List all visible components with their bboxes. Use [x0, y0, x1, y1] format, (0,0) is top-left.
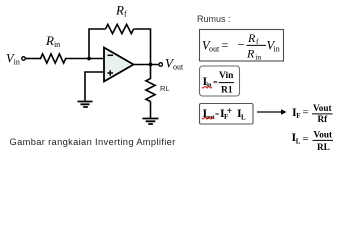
- svg-text:Rf: Rf: [318, 114, 329, 124]
- wire output node to RL: [150, 65, 152, 80]
- wire Vin to Rin: [26, 58, 42, 60]
- svg-text:Rumus :: Rumus :: [197, 14, 231, 24]
- svg-text:F: F: [296, 112, 300, 120]
- svg-text:+: +: [227, 106, 233, 117]
- svg-text:Rf: Rf: [115, 3, 127, 19]
- wire Rin to op-amp inverting input: [65, 58, 104, 60]
- op-amp U1: [104, 48, 134, 82]
- op-amp non-inverting pin mark: [108, 70, 114, 76]
- svg-text:=: =: [215, 110, 219, 119]
- junction output node: [149, 63, 153, 67]
- resistor Rin: [41, 54, 66, 63]
- wire RL to ground: [150, 102, 152, 119]
- terminal Vin: [22, 57, 26, 61]
- svg-text:out: out: [206, 114, 215, 121]
- svg-text:in: in: [274, 45, 280, 54]
- resistor Rf: [106, 24, 134, 33]
- svg-text:R: R: [246, 47, 255, 61]
- wire non-inverting input to ground: [85, 72, 104, 102]
- svg-text:Vin: Vin: [6, 51, 20, 66]
- svg-text:Vin: Vin: [219, 71, 234, 81]
- arrow from Iout box to IF formula: [257, 111, 282, 113]
- svg-text:=: =: [213, 78, 218, 87]
- svg-text:L: L: [296, 138, 301, 146]
- svg-text:R: R: [247, 31, 256, 45]
- junction node A: [87, 57, 91, 61]
- svg-text:in: in: [206, 82, 212, 89]
- formula IF = Vout/Rf: [292, 103, 333, 124]
- svg-text:−: −: [238, 37, 245, 52]
- svg-text:Vout: Vout: [165, 55, 184, 71]
- formula IL = Vout/RL: [292, 130, 334, 153]
- svg-text:in: in: [255, 53, 261, 62]
- wire feedback left (up from node A): [89, 29, 106, 59]
- formula box Iout = IF + IL: [200, 104, 254, 125]
- op-amp inverting pin mark: [108, 54, 114, 56]
- svg-text:out: out: [209, 45, 220, 54]
- svg-text:Gambar rangkaian Inverting Amp: Gambar rangkaian Inverting Amplifier: [10, 137, 176, 147]
- svg-text:Vout: Vout: [314, 130, 333, 140]
- wire feedback right (down to output node): [134, 29, 151, 65]
- resistor RL: [146, 79, 155, 102]
- ground (non-inverting input): [78, 102, 93, 108]
- svg-text:L: L: [241, 114, 246, 122]
- svg-text:R1: R1: [221, 86, 233, 96]
- ground (RL): [143, 119, 159, 125]
- wire output: [134, 64, 159, 66]
- svg-text:RL: RL: [160, 84, 170, 93]
- formula box Vout = -Rf/Rin Vin: [200, 30, 284, 62]
- svg-text:RL: RL: [317, 142, 330, 152]
- svg-text:Vout: Vout: [313, 103, 332, 113]
- svg-text:=: =: [303, 107, 309, 119]
- terminal Vout: [159, 63, 163, 67]
- svg-text:Rin: Rin: [45, 33, 60, 49]
- formula box Iin = Vin/R1: [200, 66, 240, 96]
- svg-text:=: =: [303, 133, 309, 145]
- svg-text:=: =: [222, 38, 229, 52]
